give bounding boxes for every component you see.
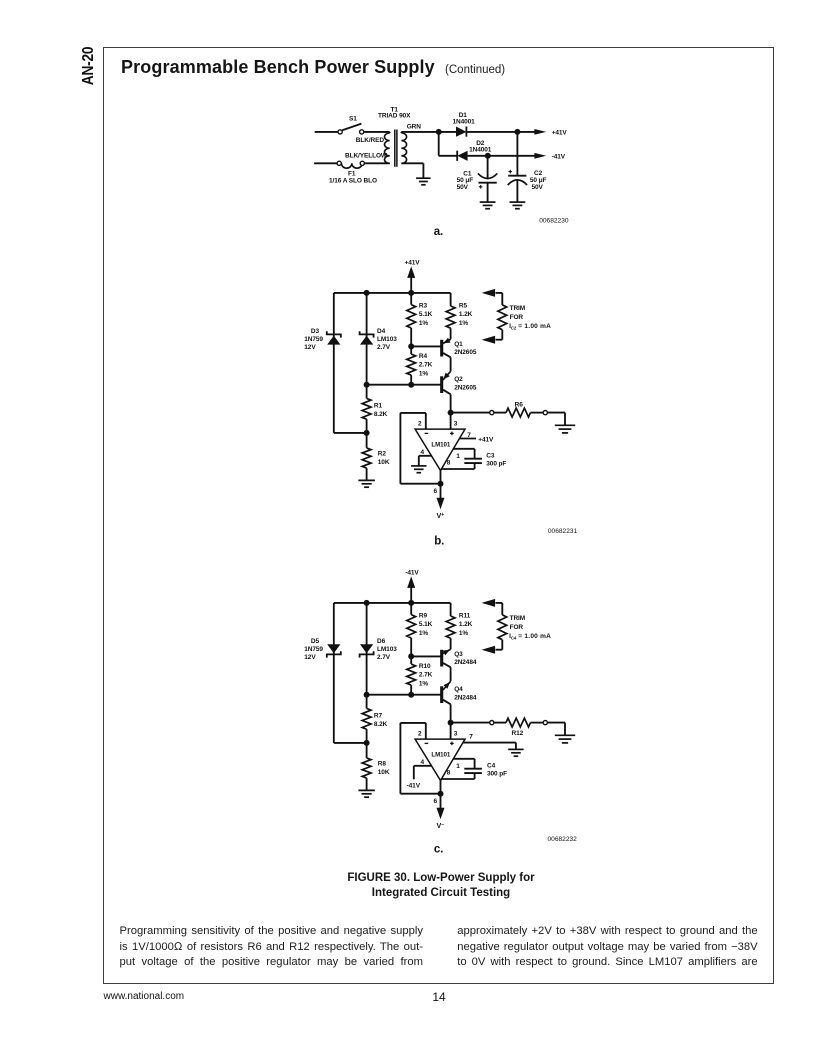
svg-text:D3: D3 (311, 328, 320, 335)
svg-text:R1: R1 (374, 403, 383, 410)
svg-text:C4: C4 (487, 762, 496, 769)
svg-text:8.2K: 8.2K (374, 721, 388, 728)
svg-text:V+: V+ (437, 511, 445, 520)
svg-text:LM103: LM103 (377, 646, 397, 653)
svg-text:2N2605: 2N2605 (454, 385, 477, 392)
svg-text:D4: D4 (377, 328, 386, 335)
svg-text:R5: R5 (459, 302, 468, 309)
svg-text:2.7V: 2.7V (377, 654, 391, 661)
svg-text:2.7K: 2.7K (419, 672, 433, 679)
svg-text:2N2484: 2N2484 (454, 659, 477, 666)
svg-text:1%: 1% (419, 320, 429, 327)
svg-text:1.2K: 1.2K (459, 621, 473, 628)
svg-text:1.2K: 1.2K (459, 311, 473, 318)
svg-text:1N759: 1N759 (304, 646, 323, 653)
svg-text:IC4 = 1.00 mA: IC4 = 1.00 mA (509, 633, 551, 640)
svg-text:F1: F1 (348, 171, 356, 178)
svg-text:D6: D6 (377, 638, 386, 645)
svg-text:6: 6 (433, 488, 437, 495)
svg-text:R4: R4 (419, 353, 428, 360)
svg-text:00682230: 00682230 (539, 218, 569, 225)
svg-text:R9: R9 (419, 612, 428, 619)
svg-text:LM101: LM101 (431, 441, 450, 448)
svg-text:2.7V: 2.7V (377, 344, 391, 351)
svg-text:50V: 50V (532, 184, 544, 191)
svg-text:1: 1 (456, 763, 460, 770)
svg-text:10K: 10K (378, 459, 390, 466)
svg-text:1/16 A SLO BLO: 1/16 A SLO BLO (329, 178, 377, 185)
svg-text:R6: R6 (515, 401, 524, 408)
svg-text:2: 2 (418, 420, 422, 427)
svg-text:50V: 50V (457, 184, 469, 191)
svg-text:R3: R3 (419, 302, 428, 309)
svg-text:TRIM: TRIM (510, 305, 525, 312)
svg-text:TRIAD 90X: TRIAD 90X (378, 112, 411, 119)
svg-text:a.: a. (434, 226, 443, 238)
svg-text:10K: 10K (378, 769, 390, 776)
svg-text:2N2605: 2N2605 (454, 349, 477, 356)
svg-text:+41V: +41V (552, 129, 568, 136)
svg-text:3: 3 (454, 730, 458, 737)
svg-text:+41V: +41V (478, 436, 494, 443)
svg-text:D5: D5 (311, 638, 320, 645)
svg-text:LM101: LM101 (431, 751, 450, 758)
svg-text:1%: 1% (419, 630, 429, 637)
svg-text:AN-20: AN-20 (80, 46, 97, 85)
svg-text:4: 4 (420, 759, 424, 766)
svg-text:7: 7 (469, 734, 473, 741)
svg-text:2.7K: 2.7K (419, 362, 433, 369)
svg-text:1%: 1% (419, 370, 429, 377)
svg-text:8.2K: 8.2K (374, 411, 388, 418)
svg-text:V–: V– (437, 821, 445, 830)
svg-text:8: 8 (447, 770, 451, 777)
svg-text:GRN: GRN (407, 123, 422, 130)
svg-text:R7: R7 (374, 713, 383, 720)
svg-text:R10: R10 (419, 663, 431, 670)
svg-text:3: 3 (454, 420, 458, 427)
svg-text:1N4001: 1N4001 (453, 119, 476, 126)
svg-text:1N759: 1N759 (304, 336, 323, 343)
svg-text:S1: S1 (349, 116, 357, 123)
svg-text:Q4: Q4 (454, 686, 463, 693)
svg-text:-41V: -41V (552, 154, 566, 161)
svg-text:b.: b. (434, 535, 444, 547)
svg-text:1%: 1% (459, 320, 469, 327)
svg-text:00682232: 00682232 (548, 836, 578, 843)
svg-text:-41V: -41V (405, 570, 419, 577)
svg-text:R8: R8 (378, 760, 387, 767)
svg-text:5.1K: 5.1K (419, 311, 433, 318)
svg-text:300 pF: 300 pF (486, 460, 506, 467)
svg-text:1%: 1% (419, 680, 429, 687)
svg-text:1: 1 (456, 453, 460, 460)
svg-text:1%: 1% (459, 630, 469, 637)
svg-text:Q2: Q2 (454, 376, 463, 383)
svg-text:LM103: LM103 (377, 336, 397, 343)
svg-text:Q1: Q1 (454, 341, 463, 348)
svg-text:IC2 = 1.00 mA: IC2 = 1.00 mA (509, 323, 551, 330)
svg-text:TRIM: TRIM (510, 615, 525, 622)
svg-text:R2: R2 (378, 450, 387, 457)
svg-text:00682231: 00682231 (548, 528, 578, 535)
svg-text:6: 6 (433, 798, 437, 805)
svg-text:300 pF: 300 pF (487, 771, 507, 778)
svg-text:8: 8 (447, 460, 451, 467)
svg-text:R12: R12 (512, 730, 524, 737)
svg-text:BLK/YELLOW: BLK/YELLOW (345, 153, 388, 160)
svg-text:Q3: Q3 (454, 651, 463, 658)
svg-text:2N2484: 2N2484 (454, 695, 477, 702)
svg-text:+41V: +41V (405, 260, 421, 267)
svg-text:-41V: -41V (407, 782, 421, 789)
svg-text:FOR: FOR (510, 624, 524, 631)
svg-text:50 μF: 50 μF (530, 177, 547, 184)
svg-text:c.: c. (434, 843, 443, 855)
svg-text:12V: 12V (304, 344, 316, 351)
svg-text:50 μF: 50 μF (457, 177, 474, 184)
svg-text:FOR: FOR (510, 314, 524, 321)
svg-text:BLK/RED: BLK/RED (356, 137, 385, 144)
svg-text:12V: 12V (304, 654, 316, 661)
svg-text:7: 7 (467, 432, 471, 439)
svg-text:2: 2 (418, 730, 422, 737)
svg-text:1N4001: 1N4001 (469, 146, 492, 153)
svg-text:C3: C3 (486, 452, 495, 459)
svg-text:R11: R11 (459, 612, 471, 619)
svg-text:5.1K: 5.1K (419, 621, 433, 628)
svg-text:4: 4 (420, 449, 424, 456)
